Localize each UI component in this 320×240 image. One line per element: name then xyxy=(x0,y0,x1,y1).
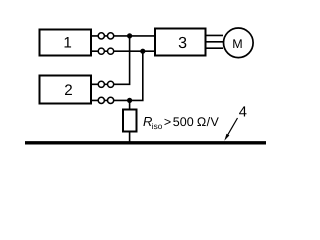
svg-text:M: M xyxy=(232,37,242,51)
svg-text:2: 2 xyxy=(64,82,72,99)
svg-text:Riso>500Ω/V: Riso>500Ω/V xyxy=(143,114,220,131)
svg-text:3: 3 xyxy=(178,35,187,52)
svg-text:1: 1 xyxy=(63,35,71,52)
svg-text:4: 4 xyxy=(239,105,247,121)
